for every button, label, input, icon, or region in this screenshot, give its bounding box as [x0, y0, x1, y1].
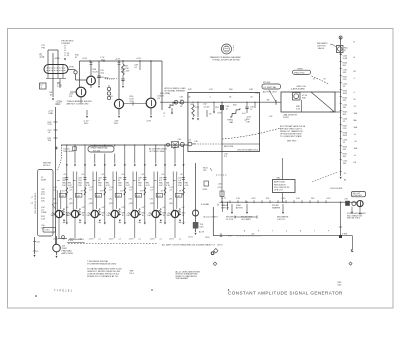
svg-text:OUT AMPL: OUT AMPL — [241, 218, 252, 221]
svg-text:100K: 100K — [343, 135, 348, 137]
svg-text:ATTEN: ATTEN — [236, 206, 243, 209]
svg-text:33: 33 — [67, 55, 69, 57]
svg-text:+15: +15 — [101, 174, 104, 176]
svg-text:C91: C91 — [169, 198, 172, 200]
svg-text:+15: +15 — [121, 174, 124, 176]
svg-text:DEC: DEC — [148, 215, 153, 217]
svg-text:+4: +4 — [31, 197, 33, 199]
svg-text:4.7K: 4.7K — [40, 57, 45, 59]
svg-text:X1 POS: X1 POS — [226, 219, 234, 221]
svg-text:AT 25: AT 25 — [218, 244, 223, 247]
svg-text:L OSC: L OSC — [44, 230, 50, 232]
svg-text:TO QUIESCENT STATE: TO QUIESCENT STATE — [280, 135, 302, 138]
svg-text:C.01: C.01 — [96, 195, 100, 197]
svg-text:+15V: +15V — [251, 198, 256, 200]
svg-text:+15: +15 — [180, 174, 183, 176]
svg-text:+47: +47 — [121, 207, 124, 209]
svg-text:27: 27 — [313, 79, 315, 81]
svg-text:4.7M: 4.7M — [330, 112, 335, 114]
svg-text:+75: +75 — [188, 140, 191, 142]
svg-text:C.01: C.01 — [76, 195, 80, 197]
svg-text:33UH: 33UH — [41, 180, 47, 182]
svg-text:+15V: +15V — [125, 71, 131, 73]
svg-text:.001: .001 — [343, 107, 347, 109]
svg-text:T Y P E 1 8 1: T Y P E 1 8 1 — [54, 290, 73, 293]
svg-text:FREQ SYNC: FREQ SYNC — [294, 72, 305, 74]
svg-text:OSC MODULE SHIELD: OSC MODULE SHIELD — [35, 192, 37, 214]
svg-text:0.1US: 0.1US — [68, 240, 74, 242]
svg-text:CIRCUIT BOARD 670-1: CIRCUIT BOARD 670-1 — [237, 149, 259, 152]
svg-text:REGULATOR: REGULATOR — [274, 183, 286, 186]
svg-text:CONSTANT AMPLITUDE SIGNAL G: CONSTANT AMPLITUDE SIGNAL GENERATOR — [228, 290, 343, 295]
svg-text:B1: B1 — [344, 180, 346, 182]
svg-text:LM: LM — [354, 162, 357, 164]
svg-text:DEC: DEC — [67, 215, 72, 217]
svg-text:C56: C56 — [36, 241, 39, 243]
svg-text:L98: L98 — [345, 199, 348, 201]
svg-text:TRIG LEVEL: TRIG LEVEL — [63, 151, 74, 153]
svg-text:8-66: 8-66 — [338, 285, 342, 287]
svg-text:1M: 1M — [267, 100, 270, 102]
svg-text:C165: C165 — [205, 237, 210, 239]
svg-text:.001: .001 — [343, 163, 347, 165]
svg-text:DEC: DEC — [114, 123, 119, 125]
svg-text:1-B1-014 SER: 1-B1-014 SER — [330, 188, 343, 190]
svg-text:OF TURN-T GAIN: OF TURN-T GAIN — [149, 150, 165, 153]
svg-text:SEE CAL PROC: SEE CAL PROC — [347, 217, 361, 220]
svg-text:+15.4V: +15.4V — [203, 107, 210, 109]
svg-text:C.01: C.01 — [157, 195, 161, 197]
svg-text:L5: L5 — [36, 251, 38, 253]
svg-text:C91: C91 — [89, 198, 92, 200]
svg-text:2.2K: 2.2K — [296, 109, 301, 111]
svg-text:DEC: DEC — [127, 215, 132, 217]
svg-text:VOLTMETER READINGS USED: VOLTMETER READINGS USED — [87, 263, 117, 266]
svg-text:DEC: DEC — [84, 123, 89, 125]
svg-text:4-100MA: 4-100MA — [201, 203, 209, 206]
svg-text:PIN: PIN — [42, 47, 46, 49]
svg-text:LINE: LINE — [48, 113, 53, 115]
svg-text:+47: +47 — [182, 207, 185, 209]
svg-text:DEC: DEC — [87, 215, 92, 217]
svg-text:+15V: +15V — [218, 184, 223, 186]
svg-text:2.2: 2.2 — [354, 106, 357, 108]
svg-text:DEC: DEC — [51, 215, 56, 217]
svg-text:+15V: +15V — [326, 198, 331, 200]
svg-text:100K: 100K — [343, 93, 348, 95]
svg-text:+47: +47 — [101, 207, 104, 209]
svg-text:-8.1V: -8.1V — [150, 238, 155, 240]
svg-text:PG 4: PG 4 — [130, 273, 134, 275]
svg-text:TUNE: TUNE — [41, 212, 47, 214]
svg-text:+15: +15 — [161, 174, 164, 176]
svg-text:AMPLITUDE: AMPLITUDE — [62, 252, 74, 255]
svg-text:-8.1V: -8.1V — [188, 237, 193, 239]
svg-text:SWITCH: SWITCH — [221, 207, 229, 209]
svg-text:NOTE 3: NOTE 3 — [43, 165, 51, 167]
svg-text:10K: 10K — [48, 140, 52, 142]
svg-text:R51: R51 — [215, 107, 218, 109]
svg-text:4: 4 — [286, 230, 287, 232]
svg-text:+4.77: +4.77 — [221, 198, 226, 200]
svg-text:DIVIDER: DIVIDER — [62, 43, 71, 45]
svg-text:AMPLITUDE: AMPLITUDE — [274, 181, 286, 184]
svg-text:C91: C91 — [53, 198, 56, 200]
svg-text:.01: .01 — [343, 142, 346, 144]
svg-text:+6: +6 — [354, 155, 356, 157]
svg-text:+15V: +15V — [136, 58, 142, 60]
svg-text:+6: +6 — [354, 134, 356, 136]
svg-text:+47: +47 — [141, 207, 144, 209]
svg-text:1=2R: 1=2R — [343, 58, 348, 60]
svg-text:B2: B2 — [354, 71, 356, 73]
svg-text:OSC: OSC — [200, 227, 205, 229]
svg-text:WITHIN 20% TOLERANCE AT 25: WITHIN 20% TOLERANCE AT 25C — [87, 275, 119, 278]
svg-text:SHAPER: SHAPER — [272, 206, 281, 209]
svg-text:+15: +15 — [141, 174, 144, 176]
svg-text:FOR ALL EXCEPT AS NOTED: FOR ALL EXCEPT AS NOTED — [213, 58, 241, 61]
svg-text:DEC: DEC — [107, 215, 112, 217]
svg-text:+15: +15 — [81, 174, 84, 176]
svg-text:C161 2X: C161 2X — [277, 219, 285, 221]
svg-text:+47: +47 — [82, 207, 85, 209]
svg-text:2.2K: 2.2K — [48, 124, 53, 126]
svg-text:C91: C91 — [109, 198, 112, 200]
svg-text:ALL DC LEVELS: ALL DC LEVELS — [204, 216, 219, 219]
svg-text:.01: .01 — [343, 86, 346, 88]
svg-text:MULTIVIB: MULTIVIB — [224, 146, 234, 148]
svg-text:+12: +12 — [354, 141, 357, 143]
svg-text:C40: C40 — [178, 139, 181, 141]
svg-text:-1: -1 — [354, 78, 356, 80]
svg-text:56.2K: 56.2K — [93, 72, 99, 74]
svg-text:C.01: C.01 — [176, 195, 180, 197]
svg-text:ARE NOT CONNECTED: ARE NOT CONNECTED — [67, 103, 90, 106]
svg-text:THE DIAGRAM: THE DIAGRAM — [176, 277, 189, 280]
svg-text:DEC: DEC — [167, 215, 172, 217]
svg-text:+13V: +13V — [146, 121, 152, 123]
svg-text:.001: .001 — [343, 72, 347, 74]
svg-text:LEVEL ADJ: LEVEL ADJ — [353, 194, 362, 197]
svg-text:+4.2V: +4.2V — [115, 59, 121, 61]
svg-text:GND: GND — [104, 78, 109, 80]
svg-text:GRID: GRID — [55, 58, 61, 60]
svg-text:C.01: C.01 — [116, 195, 120, 197]
svg-text:-8.1V: -8.1V — [169, 238, 174, 240]
svg-text:DC SHIFT BAL: DC SHIFT BAL — [264, 86, 277, 89]
svg-text:+RED COIL: +RED COIL — [296, 86, 306, 88]
svg-text:R75 50K: R75 50K — [93, 150, 101, 152]
svg-text:(2MA): (2MA) — [165, 92, 171, 95]
svg-text:C5: C5 — [31, 203, 33, 205]
svg-text:OF A OUT: OF A OUT — [274, 188, 284, 191]
svg-text:DEC: DEC — [56, 104, 61, 106]
svg-text:-8.1V: -8.1V — [89, 238, 94, 240]
svg-text:+47: +47 — [66, 207, 69, 209]
svg-text:2.2K: 2.2K — [41, 219, 46, 221]
svg-text:2.2K: 2.2K — [195, 107, 200, 109]
svg-text:AC W: AC W — [199, 230, 204, 233]
svg-text:4 TPA: 4 TPA — [342, 232, 348, 235]
svg-text:-8.1V: -8.1V — [53, 238, 58, 240]
svg-text:POINT: POINT — [283, 117, 290, 119]
svg-text:2.2K: 2.2K — [57, 86, 62, 88]
svg-text:R55 50K: R55 50K — [263, 82, 271, 84]
svg-text:.1: .1 — [163, 115, 165, 117]
svg-text:+60: +60 — [251, 233, 254, 235]
svg-text:SEE TEXT: SEE TEXT — [287, 141, 297, 143]
svg-text:PHASE RANGE BAL: PHASE RANGE BAL — [91, 147, 108, 150]
svg-text:C91: C91 — [129, 198, 132, 200]
svg-text:C.01: C.01 — [60, 195, 64, 197]
svg-text:-15: -15 — [344, 173, 347, 175]
svg-text:TP35: TP35 — [69, 67, 75, 69]
svg-text:C91: C91 — [69, 198, 72, 200]
svg-text:+47: +47 — [162, 207, 165, 209]
svg-text:ALL AMPLITUDES MEASURED AS: ALL AMPLITUDES MEASURED AS SQUARE-WAVE P… — [162, 243, 216, 246]
svg-text:+750: +750 — [281, 198, 285, 200]
svg-text:C91: C91 — [150, 198, 153, 200]
svg-text:4: 4 — [354, 92, 355, 94]
svg-text:-8.1V: -8.1V — [129, 238, 134, 240]
svg-text:50: 50 — [354, 99, 356, 101]
svg-text:S100: S100 — [203, 189, 207, 191]
svg-text:+15: +15 — [63, 174, 66, 176]
svg-text:8.2K: 8.2K — [218, 113, 223, 115]
svg-text:C.01: C.01 — [136, 195, 140, 197]
svg-text:.01: .01 — [343, 121, 346, 123]
svg-text:C47: C47 — [269, 116, 272, 118]
svg-text:-8.1V: -8.1V — [109, 238, 114, 240]
svg-text:37: 37 — [324, 79, 326, 81]
svg-text:VALUE: VALUE — [318, 47, 325, 50]
svg-text:+15V: +15V — [82, 58, 88, 60]
